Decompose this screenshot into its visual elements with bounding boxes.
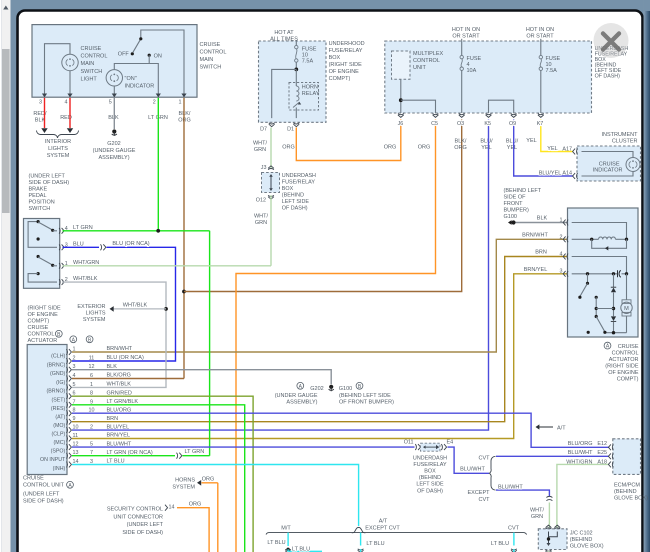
svg-text:(GND): (GND) (50, 371, 66, 377)
blu/org wire cruise unit pin 8 to ECM E12 (72, 413, 609, 447)
svg-text:SWITCH: SWITCH (81, 69, 103, 75)
lt grn wire down to cruise unit pin 13 (209, 231, 211, 456)
svg-text:CRUISE: CRUISE (28, 325, 49, 331)
wire pin 4 internal (572, 257, 627, 274)
svg-text:G202: G202 (107, 141, 120, 147)
svg-text:UNIT CONNECTOR: UNIT CONNECTOR (113, 514, 163, 520)
svg-text:ORG: ORG (202, 477, 215, 483)
svg-text:2: 2 (90, 425, 93, 431)
svg-text:A17: A17 (562, 146, 572, 152)
M/T A/T CVT line (266, 533, 527, 535)
wht/grn wire down to J/C C102 (548, 503, 550, 529)
svg-text:CONTROL: CONTROL (413, 58, 440, 64)
wire K5-O9 bridge (489, 100, 514, 113)
svg-text:COMPT): COMPT) (617, 377, 639, 383)
svg-text:WHT/: WHT/ (253, 141, 268, 147)
svg-text:(RIGHT SIDE: (RIGHT SIDE (28, 306, 62, 312)
svg-text:10: 10 (73, 425, 79, 431)
wire (45, 44, 71, 94)
svg-text:WHT/BLK: WHT/BLK (107, 382, 132, 388)
blu/wht wire except cvt (496, 490, 549, 496)
svg-text:(MC): (MC) (54, 440, 66, 446)
svg-text:A/T: A/T (557, 426, 566, 432)
svg-text:BRN/WHT: BRN/WHT (107, 346, 133, 352)
actuator switch middle chain (595, 296, 598, 299)
svg-text:O9: O9 (509, 121, 516, 127)
one-way clutch diode branch (592, 239, 627, 248)
svg-text:CVT: CVT (479, 455, 491, 461)
contact dot (587, 331, 590, 334)
svg-text:CLUSTER: CLUSTER (612, 138, 638, 144)
svg-text:2: 2 (560, 234, 563, 240)
cruise control unit pins (66, 349, 71, 355)
wire (69, 71, 71, 94)
blu wire brake pin 3 (63, 246, 100, 248)
wht/blk wire brake pin 2 (62, 282, 166, 387)
capacitor (618, 270, 621, 277)
svg-text:7.5A: 7.5A (546, 68, 558, 74)
svg-text:BRN: BRN (535, 250, 547, 256)
blk wire pin 5 to G202 (113, 98, 115, 129)
svg-text:BLK/: BLK/ (455, 139, 467, 145)
svg-text:G202: G202 (310, 386, 323, 392)
svg-text:7.5A: 7.5A (302, 59, 314, 65)
svg-text:(UNDER LEFT: (UNDER LEFT (127, 522, 164, 528)
svg-text:BLU/ORG: BLU/ORG (568, 441, 593, 447)
svg-text:SECURITY CONTROL: SECURITY CONTROL (107, 507, 163, 513)
J/C internal wires (548, 532, 550, 544)
svg-text:CRUISE: CRUISE (618, 344, 639, 350)
svg-text:GRN: GRN (531, 514, 543, 520)
svg-text:(BEHIND: (BEHIND (282, 193, 304, 199)
on indicator lamp (106, 70, 122, 86)
svg-text:CONTROL UNIT: CONTROL UNIT (23, 483, 65, 489)
svg-text:SIDE OF DASH): SIDE OF DASH) (29, 180, 70, 186)
instrument cluster box (577, 146, 641, 181)
inline connector (101, 244, 106, 250)
svg-text:LIGHT: LIGHT (81, 76, 98, 82)
svg-text:YEL: YEL (526, 138, 536, 144)
lt blu stub CVT (513, 533, 515, 546)
blu/wht wire cruise unit pin 12 (72, 446, 415, 448)
svg-text:(IG): (IG) (56, 380, 65, 386)
svg-text:(SPO): (SPO) (51, 448, 66, 454)
svg-text:1: 1 (560, 218, 563, 224)
svg-text:BRAKE: BRAKE (29, 187, 48, 193)
svg-text:A18: A18 (597, 459, 607, 465)
lt blu wire cruise unit pin 14 (72, 465, 359, 527)
svg-text:ACTUATOR: ACTUATOR (28, 338, 58, 344)
blk/org wire cruise unit pin 4 (72, 378, 184, 380)
lt grn wire cruise unit pin 13 (72, 455, 175, 457)
svg-text:2: 2 (73, 356, 76, 362)
svg-text:11: 11 (89, 356, 95, 362)
svg-text:YEL: YEL (507, 145, 517, 151)
blk wire cruise unit pin 3 to G202/G100 (72, 370, 331, 385)
svg-text:LIGHTS: LIGHTS (86, 311, 106, 317)
svg-text:RELAY: RELAY (302, 91, 320, 97)
svg-text:A/T: A/T (379, 519, 388, 525)
connector A18 (608, 462, 613, 468)
svg-text:14: 14 (169, 505, 175, 511)
A/T arrow (536, 426, 553, 428)
close button (594, 23, 629, 58)
svg-text:(UNDER GAUGE: (UNDER GAUGE (93, 148, 136, 154)
svg-text:4: 4 (65, 100, 68, 106)
svg-text:ORG: ORG (454, 145, 467, 151)
svg-text:MULTIPLEX: MULTIPLEX (413, 51, 443, 57)
svg-text:E25: E25 (597, 450, 607, 456)
svg-text:BLU/WHT: BLU/WHT (568, 450, 593, 456)
org wire C5 down-left-down (236, 120, 436, 552)
svg-text:LT BLU: LT BLU (366, 541, 384, 547)
blu/yel wire K5 to cruise unit pin 10 (72, 120, 489, 431)
svg-text:(RIGHT SIDE: (RIGHT SIDE (605, 364, 639, 370)
underdash fuse/relay box (385, 41, 592, 113)
connector E12 (608, 444, 613, 450)
svg-text:(BEHIND LEFT: (BEHIND LEFT (504, 188, 542, 194)
svg-text:A14: A14 (562, 171, 572, 177)
svg-text:J3: J3 (261, 165, 267, 171)
svg-text:(UNDER LEFT: (UNDER LEFT (29, 174, 66, 180)
svg-text:LEFT SIDE: LEFT SIDE (282, 199, 310, 205)
lt blu stub M/T (287, 533, 289, 546)
svg-text:BOX: BOX (424, 469, 436, 475)
lt blu stub A/T except CVT (360, 533, 362, 546)
svg-text:SYSTEM: SYSTEM (83, 317, 106, 323)
svg-text:BLU/: BLU/ (506, 139, 519, 145)
svg-text:BLU/YEL: BLU/YEL (107, 424, 130, 430)
blu wire to cruise unit pin 2 (72, 247, 176, 361)
svg-text:SWITCH: SWITCH (200, 65, 222, 71)
svg-text:LEFT SIDE: LEFT SIDE (416, 482, 444, 488)
svg-text:LT BLU: LT BLU (491, 541, 509, 547)
svg-text:BLU/WHT: BLU/WHT (460, 467, 485, 473)
svg-text:OF ENGINE: OF ENGINE (329, 69, 360, 75)
svg-text:E12: E12 (597, 441, 607, 447)
wht/blk branch to exterior lights system (114, 308, 167, 310)
connector A17 (573, 149, 578, 155)
svg-text:YEL: YEL (547, 146, 557, 152)
svg-text:ON: ON (154, 54, 162, 60)
actuator internal wiring (572, 223, 627, 240)
svg-text:FUSE/RELAY: FUSE/RELAY (413, 462, 447, 468)
svg-text:E4: E4 (447, 440, 454, 446)
svg-text:1: 1 (90, 382, 93, 388)
svg-text:INSTRUMENT: INSTRUMENT (601, 132, 638, 138)
scrollbar (0, 0, 1, 552)
svg-text:UNDERDASH: UNDERDASH (282, 173, 316, 179)
svg-text:11: 11 (73, 433, 79, 439)
svg-text:YEL: YEL (481, 145, 491, 151)
svg-text:(BRNO): (BRNO) (46, 389, 65, 395)
brake switch pins 4 3 1 2 (59, 228, 64, 234)
svg-text:INDICATOR: INDICATOR (593, 167, 623, 173)
svg-text:(RES): (RES) (51, 406, 66, 412)
svg-text:GLOVE BOX): GLOVE BOX) (614, 495, 648, 501)
svg-text:G100: G100 (504, 214, 517, 220)
svg-text:CVT: CVT (479, 497, 491, 503)
interior lights system brace (37, 131, 79, 138)
diode up branch (613, 274, 615, 287)
brn/yel wire cruise unit pin 11 to actuator pin 3 (72, 274, 567, 439)
svg-text:SYSTEM: SYSTEM (172, 484, 195, 490)
svg-text:SIDE OF: SIDE OF (504, 195, 527, 201)
ground G202 under gauge assembly (112, 129, 116, 133)
svg-text:2: 2 (153, 100, 156, 106)
svg-text:J6: J6 (398, 121, 404, 127)
svg-text:SIDE OF DASH): SIDE OF DASH) (23, 499, 64, 505)
svg-text:OR START: OR START (452, 34, 480, 40)
svg-text:ORG: ORG (418, 145, 431, 151)
svg-text:HORNS: HORNS (175, 477, 195, 483)
svg-text:POSITION: POSITION (29, 200, 55, 206)
svg-text:(CLH): (CLH) (51, 353, 65, 359)
svg-text:INDICATOR: INDICATOR (125, 84, 155, 90)
svg-text:(SET): (SET) (51, 398, 65, 404)
blu/yel wire O9 to A14 (514, 120, 573, 177)
svg-text:10A: 10A (467, 68, 477, 74)
svg-text:O12: O12 (256, 198, 266, 204)
svg-text:CONTROL: CONTROL (81, 54, 108, 60)
svg-text:BLU/: BLU/ (480, 139, 493, 145)
svg-text:CONTROL: CONTROL (200, 50, 227, 56)
svg-text:CVT: CVT (508, 526, 520, 532)
right edge shading (644, 0, 650, 552)
svg-text:3: 3 (560, 269, 563, 275)
wire (294, 68, 298, 72)
svg-text:LIGHTS: LIGHTS (48, 146, 68, 152)
svg-text:OF ENGINE: OF ENGINE (608, 370, 639, 376)
svg-text:5: 5 (73, 382, 76, 388)
actuator label (604, 342, 611, 349)
svg-text:OF ENGINE: OF ENGINE (28, 312, 59, 318)
J/C C102 box (538, 529, 567, 550)
svg-text:C5: C5 (431, 121, 438, 127)
brace over M/T line (352, 527, 366, 532)
actuator pin 3 (563, 271, 568, 277)
svg-text:EXCEPT CVT: EXCEPT CVT (365, 525, 400, 531)
blk wire G100 to actuator pin 1 (516, 222, 568, 224)
svg-text:BLU (OR NCA): BLU (OR NCA) (107, 355, 144, 361)
svg-text:BLU/WHT: BLU/WHT (498, 484, 523, 490)
svg-text:BRN: BRN (107, 416, 119, 422)
ECM/PCM box (613, 439, 641, 475)
svg-text:ORG: ORG (282, 145, 295, 151)
svg-text:(RIGHT SIDE: (RIGHT SIDE (329, 62, 363, 68)
horn relay (289, 83, 319, 111)
red wire pin 4 to interior lights (69, 98, 71, 128)
brake switch upper contacts (28, 222, 57, 248)
svg-text:PEDAL: PEDAL (29, 193, 47, 199)
svg-text:"ON": "ON" (125, 76, 137, 82)
svg-text:OR START: OR START (526, 34, 554, 40)
org wire D1 to J6 (296, 120, 401, 161)
svg-text:CONTROL: CONTROL (28, 332, 55, 338)
blu/wht wire cvt to ECM E25 (496, 455, 609, 457)
svg-text:GRN: GRN (255, 220, 267, 226)
svg-text:(BEHIND LEFT SIDE: (BEHIND LEFT SIDE (339, 393, 391, 399)
svg-text:UNIT: UNIT (413, 65, 426, 71)
brake pedal position switch box (24, 219, 60, 289)
svg-text:D1: D1 (287, 127, 294, 133)
svg-text:ORG: ORG (189, 502, 202, 508)
connector E25 (608, 453, 613, 459)
wire (148, 55, 150, 63)
svg-text:ECM/PCM: ECM/PCM (614, 482, 640, 488)
svg-text:O11: O11 (404, 440, 414, 446)
svg-text:ALL TIMES: ALL TIMES (270, 37, 298, 43)
svg-text:HOT IN ON: HOT IN ON (452, 27, 480, 33)
org wire security to bottom (177, 508, 209, 552)
svg-text:ACTUATOR: ACTUATOR (609, 357, 639, 363)
grn/red wire cruise unit pin 6 (72, 396, 253, 552)
cruise control main switch box (32, 25, 197, 98)
svg-text:HOT AT: HOT AT (274, 30, 294, 36)
wire pin 3 internal (572, 273, 617, 275)
brake switch lower contacts (37, 255, 40, 258)
blu/wht wire to brace (448, 447, 490, 473)
lt grn/blk wire cruise unit pin 7 (72, 405, 245, 552)
svg-text:COMPT): COMPT) (329, 76, 351, 82)
connectors J6 C5 O3 K5 O9 K7 (398, 114, 404, 118)
svg-text:CRUISE: CRUISE (23, 476, 44, 482)
svg-text:3: 3 (39, 100, 42, 106)
svg-text:UNDERDASH: UNDERDASH (413, 455, 447, 461)
svg-text:BRN/WHT: BRN/WHT (522, 233, 548, 239)
svg-text:LT BLU: LT BLU (267, 540, 285, 546)
cvt/except-cvt brace (489, 456, 495, 490)
svg-text:LT GRN: LT GRN (185, 449, 205, 455)
svg-text:CRUISE: CRUISE (81, 46, 102, 52)
actuator switch left (587, 274, 589, 283)
svg-text:BLU/YEL: BLU/YEL (539, 170, 562, 176)
svg-text:ON INPUT: ON INPUT (40, 457, 66, 463)
svg-text:WHT/: WHT/ (254, 214, 269, 220)
multiplex control unit (392, 51, 411, 79)
svg-text:SYSTEM: SYSTEM (47, 153, 70, 159)
svg-text:4: 4 (560, 252, 563, 258)
svg-text:ASSEMBLY): ASSEMBLY) (286, 399, 317, 405)
fuse 4 10A (461, 39, 463, 56)
svg-text:1: 1 (179, 100, 182, 106)
svg-text:LT BLU: LT BLU (292, 547, 310, 552)
cruise control actuator box (568, 208, 639, 337)
wht/grn wire O12 to brake switch (270, 195, 272, 265)
blk/org wire pin 1 down to cruise unit pin 4 (183, 98, 185, 379)
svg-text:BUMPER): BUMPER) (504, 208, 530, 214)
svg-text:MAIN: MAIN (200, 57, 214, 63)
svg-text:G100: G100 (339, 386, 352, 392)
svg-text:M: M (624, 306, 629, 312)
svg-text:ASSEMBLY): ASSEMBLY) (98, 155, 129, 161)
svg-text:OF DASH): OF DASH) (282, 206, 308, 212)
svg-text:CRUISE: CRUISE (200, 42, 221, 48)
switch pins 3 4 5 2 1 (42, 94, 47, 98)
svg-text:MAIN: MAIN (81, 61, 95, 67)
svg-text:OF DASH): OF DASH) (417, 488, 443, 494)
svg-text:CONTROL: CONTROL (612, 351, 639, 357)
cruise indicator lamp (582, 152, 634, 158)
svg-text:BLU (OR NCA): BLU (OR NCA) (112, 241, 149, 247)
connector to wht/grn (546, 496, 552, 500)
wht/grn wire ECM A18 to J/C C102 (557, 464, 609, 528)
svg-text:BRN/YEL: BRN/YEL (524, 267, 548, 273)
svg-text:WHT/GRN: WHT/GRN (73, 260, 99, 266)
svg-text:(BEHIND: (BEHIND (614, 489, 637, 495)
svg-text:COMPT): COMPT) (28, 319, 50, 325)
blk/org branch wire to O3 (184, 120, 462, 292)
brn wire cruise unit pin 9 to actuator pin 4 (72, 257, 567, 422)
svg-text:WHT/BLK: WHT/BLK (123, 303, 148, 309)
wire (113, 86, 115, 94)
svg-text:WHT/GRN: WHT/GRN (566, 459, 592, 465)
svg-text:HOT IN ON: HOT IN ON (526, 27, 554, 33)
svg-text:(UNDER GAUGE: (UNDER GAUGE (275, 393, 318, 399)
actuator pin 4 (563, 254, 568, 260)
svg-text:FRONT: FRONT (504, 201, 524, 207)
connector A14 (573, 173, 578, 179)
wht/grn wire brake pin 1 to O12 (63, 265, 272, 267)
svg-text:5: 5 (109, 100, 112, 106)
motor M (626, 274, 628, 300)
svg-text:WHT/: WHT/ (530, 508, 545, 514)
fuse 10 7.5A right (540, 39, 542, 56)
actuator pin 1 (563, 220, 568, 226)
underhood fuse/relay box (259, 41, 327, 122)
svg-text:HORN: HORN (302, 85, 318, 91)
svg-text:WHT/BLK: WHT/BLK (73, 276, 98, 282)
lt grn wire pin 2 down (157, 98, 159, 231)
svg-text:1: 1 (73, 347, 76, 353)
fuse 10 7.5A (295, 41, 297, 45)
svg-text:SWITCH: SWITCH (29, 206, 51, 212)
connector D1 (293, 123, 299, 127)
lt grn wire brake pin 4 (63, 230, 210, 232)
connector D7 (269, 123, 275, 127)
connector pins into J/C C102 (546, 525, 552, 529)
svg-text:K7: K7 (537, 121, 544, 127)
svg-text:(MO): (MO) (53, 423, 65, 429)
svg-text:FUSE/RELAY: FUSE/RELAY (329, 48, 363, 54)
svg-text:BLK/: BLK/ (179, 111, 191, 117)
junction blk/org branch (182, 290, 186, 294)
svg-text:J/C C102: J/C C102 (570, 531, 593, 537)
ground G202/G100 shared (329, 385, 333, 389)
svg-text:M/T: M/T (281, 526, 291, 532)
diode down branch (611, 316, 616, 321)
cruise control unit box (27, 345, 67, 475)
svg-text:SIDE OF DASH): SIDE OF DASH) (122, 530, 163, 536)
cruise control main switch light lamp (62, 54, 78, 70)
svg-text:OFF: OFF (118, 52, 130, 58)
svg-text:K5: K5 (484, 121, 491, 127)
horns system wire (202, 482, 218, 484)
svg-text:(BEHIND: (BEHIND (570, 537, 593, 543)
svg-text:(BEHIND: (BEHIND (419, 475, 441, 481)
actuator pin 2 (563, 236, 568, 242)
svg-text:OF FRONT BUMPER): OF FRONT BUMPER) (339, 399, 394, 405)
svg-text:FUSE/RELAY: FUSE/RELAY (282, 180, 316, 186)
svg-text:(BRNC): (BRNC) (47, 362, 66, 368)
svg-text:ORG: ORG (384, 145, 397, 151)
svg-text:EXTERIOR: EXTERIOR (77, 304, 105, 310)
brn/wht wire cruise unit pin 1 to actuator pin 2 (72, 239, 567, 352)
off-on switch (133, 30, 184, 94)
svg-text:BLK: BLK (537, 216, 548, 222)
svg-text:D7: D7 (260, 127, 267, 133)
svg-text:9: 9 (73, 416, 76, 422)
